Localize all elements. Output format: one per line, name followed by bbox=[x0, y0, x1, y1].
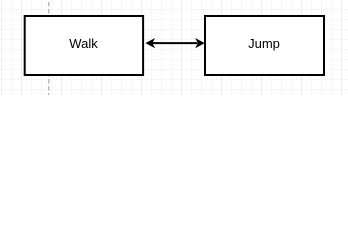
page boundary dashed line bbox=[48, 2, 50, 95]
state box Walk bbox=[25, 16, 143, 75]
svg-text:Walk: Walk bbox=[69, 36, 98, 51]
grid (decorative) bbox=[0, 0, 348, 95]
state box Jump bbox=[205, 16, 324, 75]
wire: arrow shaft bbox=[153, 42, 198, 44]
right arrowhead bbox=[195, 38, 205, 48]
double-headed arrow between Walk and Jump bbox=[145, 38, 204, 48]
left arrowhead bbox=[145, 38, 155, 48]
svg-text:Jump: Jump bbox=[248, 36, 280, 51]
